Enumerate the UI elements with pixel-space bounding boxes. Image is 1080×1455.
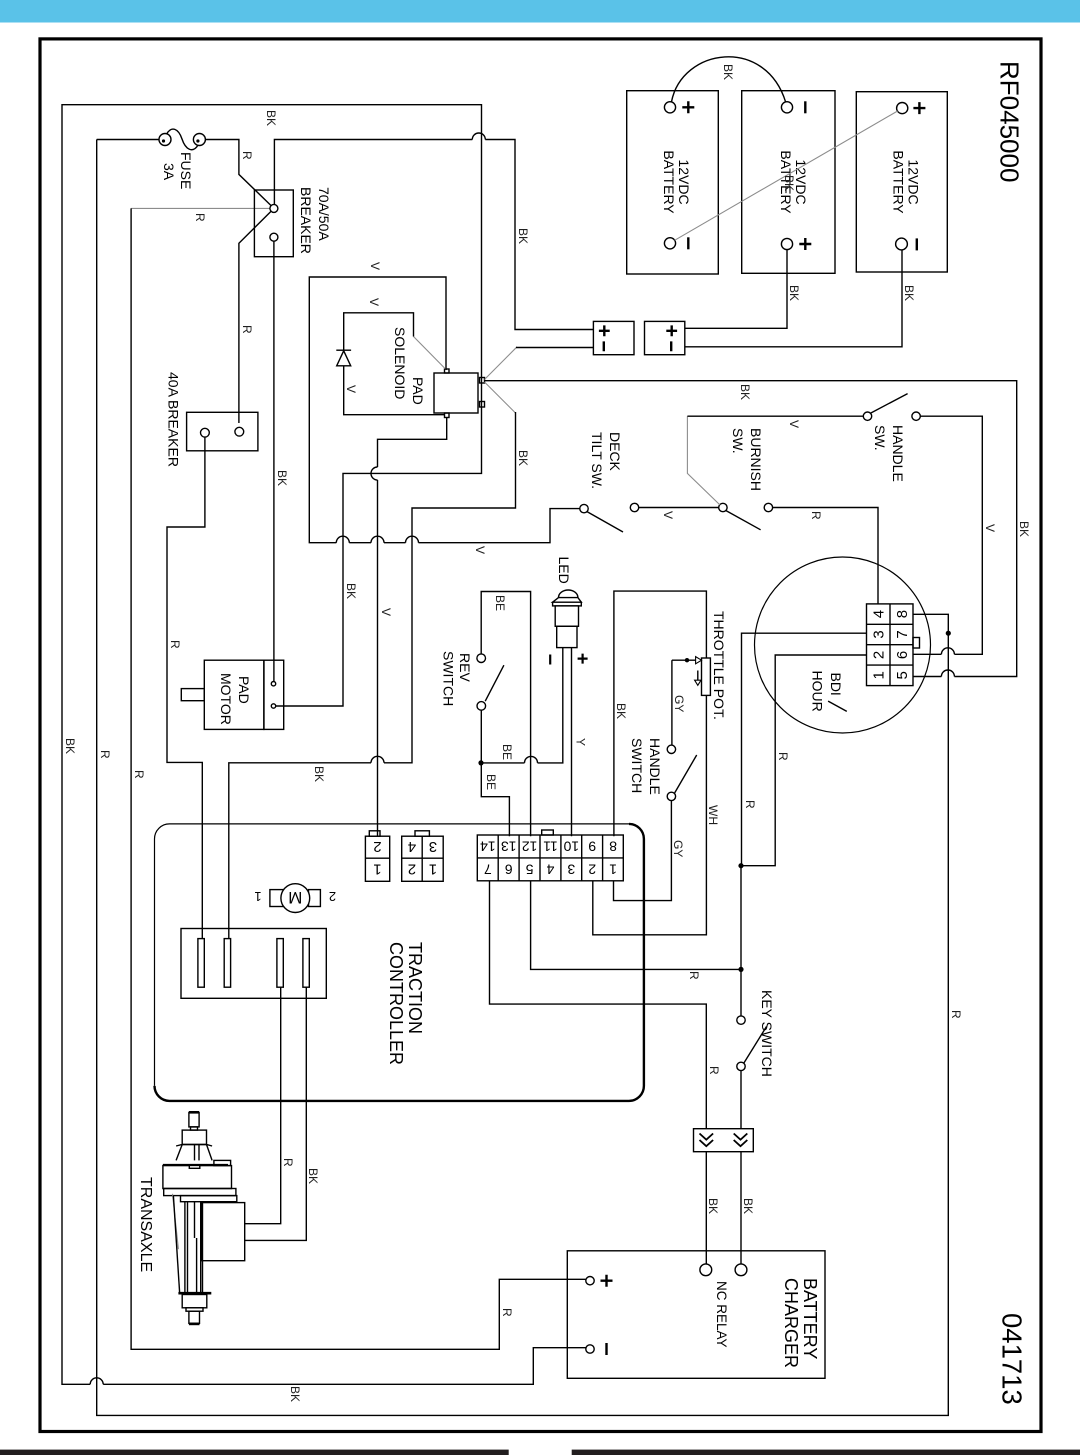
svg-text:R: R — [500, 1308, 514, 1317]
70A breaker blade and wire down to 40A breaker — [239, 211, 271, 423]
svg-text:10: 10 — [563, 839, 579, 855]
charger minus terminal — [586, 1345, 594, 1353]
handle switch (top) — [863, 394, 920, 421]
handle switch (lower) — [667, 745, 697, 801]
svg-text:40A BREAKER: 40A BREAKER — [165, 372, 181, 467]
wire hop over solenoid contact vertical — [472, 133, 485, 140]
svg-text:BE: BE — [500, 744, 514, 760]
svg-text:CHARGER: CHARGER — [781, 1278, 801, 1368]
battery2 plus terminal — [781, 238, 792, 249]
svg-text:R: R — [281, 1158, 295, 1167]
svg-text:SW.: SW. — [872, 425, 888, 451]
svg-text:R: R — [707, 1066, 721, 1075]
wire from diode anode to solenoid coil bottom tab — [344, 366, 445, 415]
motor M symbol — [270, 884, 321, 913]
wire Y LED plus leg to pin 11 — [571, 648, 573, 837]
gray diagonal from solenoid upper contact down to controller wire — [485, 382, 516, 413]
svg-text:BK: BK — [1017, 521, 1031, 537]
svg-text:3: 3 — [567, 861, 575, 877]
gray link wire from handle sw wire to burnish left terminal — [687, 416, 720, 505]
hop over x=377.5 — [371, 536, 384, 543]
hop over x=377.5 on y=762.8 — [371, 756, 384, 762]
svg-text:12VDC: 12VDC — [906, 159, 922, 204]
wire R fuse feed: from fuse left terminal down left edge, along bottom, up to BDI junction — [97, 140, 949, 1416]
deck tilt switch — [580, 503, 639, 532]
svg-text:1: 1 — [429, 860, 437, 877]
svg-text:R: R — [132, 770, 146, 779]
wire R transaxle to blade 3 — [245, 987, 281, 1223]
svg-text:R: R — [193, 213, 207, 222]
svg-text:BE: BE — [484, 774, 498, 790]
svg-text:BK: BK — [614, 703, 628, 719]
pad motor body — [181, 660, 283, 729]
battery 1 box — [627, 91, 719, 274]
battery2 minus terminal — [781, 102, 792, 113]
svg-text:RF045000: RF045000 — [995, 61, 1025, 182]
svg-text:BURNISH: BURNISH — [748, 428, 764, 491]
svg-text:BK: BK — [782, 175, 796, 191]
svg-text:TILT SW.: TILT SW. — [589, 432, 605, 489]
svg-text:REV: REV — [457, 653, 473, 682]
traction controller rounded box thick edges — [155, 824, 644, 1101]
svg-text:8: 8 — [609, 839, 617, 855]
gray leader diagonal from V-loop corner to solenoid coil top tab — [414, 337, 447, 370]
battery 2 box — [742, 91, 835, 274]
wire horizontal from frame-left into fuse — [97, 139, 159, 141]
svg-text:2: 2 — [329, 889, 336, 904]
svg-text:V: V — [344, 385, 358, 393]
battery3 plus terminal — [897, 103, 908, 114]
svg-text:V: V — [787, 420, 801, 428]
svg-text:V: V — [473, 546, 487, 554]
battery plug box2 — [645, 321, 685, 354]
svg-text:6: 6 — [894, 651, 911, 659]
junction dot at BDI pin8 wire — [946, 631, 951, 636]
wire V from solenoid coil bottom tab to 2-pin connector — [378, 418, 447, 468]
70A/50A breaker box — [254, 190, 293, 257]
svg-text:7: 7 — [484, 861, 492, 877]
svg-text:BK: BK — [312, 766, 326, 782]
wire R burnish to BDI pin 4 — [773, 508, 878, 604]
svg-text:GY: GY — [671, 840, 685, 857]
battery 3 box — [856, 92, 947, 272]
svg-text:BK: BK — [306, 1168, 320, 1184]
40A breaker box — [187, 412, 258, 451]
svg-text:HANDLE: HANDLE — [647, 738, 663, 795]
wire BE rev switch upper to pin 12 — [481, 592, 530, 837]
svg-text:BDI: BDI — [828, 673, 844, 696]
svg-text:SWITCH: SWITCH — [441, 651, 457, 706]
svg-text:3: 3 — [871, 630, 888, 638]
svg-text:12: 12 — [522, 839, 538, 855]
wire BK solenoid contact to traction controller blade 2 — [384, 412, 516, 763]
hop over x=948 on pin6 wire — [941, 648, 954, 655]
svg-text:BATTERY: BATTERY — [800, 1278, 820, 1359]
throttle pot body — [702, 658, 711, 695]
svg-text:BE: BE — [493, 595, 507, 611]
pot adjust arrow — [695, 671, 701, 686]
fuse 3A symbol — [159, 129, 205, 150]
throttle pot wire loop top — [614, 591, 707, 836]
hop on vertical over y=473.4 wire — [371, 467, 378, 480]
BDI / hour meter circle — [755, 557, 931, 733]
charger minus sign — [605, 1343, 607, 1355]
wire GY pot wiper to handle switch — [671, 660, 673, 745]
svg-text:1: 1 — [871, 671, 888, 679]
svg-text:BREAKER: BREAKER — [298, 187, 314, 254]
wire from diagonal to battery plug box1 — [516, 347, 593, 349]
svg-text:R: R — [949, 1010, 963, 1019]
battery1 minus sign — [687, 237, 689, 249]
70A breaker upper terminal — [270, 204, 278, 212]
svg-text:4: 4 — [408, 838, 416, 855]
70A breaker lower terminal — [270, 233, 278, 241]
svg-text:8: 8 — [894, 610, 911, 618]
svg-text:3A: 3A — [161, 163, 177, 181]
junction dot BE node — [478, 760, 483, 765]
BDI slash — [828, 701, 847, 711]
svg-text:V: V — [661, 511, 675, 519]
LED symbol — [553, 590, 582, 648]
svg-text:TRACTION: TRACTION — [405, 942, 425, 1034]
svg-text:BK: BK — [902, 285, 916, 301]
svg-text:M: M — [288, 888, 302, 907]
bottom footer bar left — [0, 1450, 509, 1455]
svg-text:BK: BK — [706, 1198, 720, 1214]
svg-text:BK: BK — [264, 110, 278, 126]
svg-text:THROTTLE POT.: THROTTLE POT. — [711, 611, 727, 720]
bottom footer bar right — [572, 1450, 1080, 1455]
rev switch — [477, 654, 504, 710]
gray diagonal from solenoid upper contact up to plug box wire — [485, 347, 518, 380]
controller power blade connector box — [181, 929, 326, 999]
svg-text:3: 3 — [429, 838, 437, 855]
svg-text:BATTERY: BATTERY — [891, 150, 907, 214]
battery2 minus sign — [804, 101, 806, 113]
svg-text:V: V — [983, 524, 997, 532]
40A breaker left terminal — [201, 428, 210, 437]
wire BE rev switch lower to pin 13 — [481, 710, 509, 836]
battery3 minus sign — [916, 238, 918, 250]
hop over x=412 — [406, 536, 419, 543]
svg-text:2: 2 — [408, 860, 416, 877]
svg-text:2: 2 — [588, 861, 596, 877]
svg-text:NC RELAY: NC RELAY — [714, 1281, 729, 1348]
svg-text:R: R — [776, 752, 790, 761]
svg-text:V: V — [379, 608, 393, 616]
svg-text:2: 2 — [871, 651, 888, 659]
svg-text:CONTROLLER: CONTROLLER — [386, 942, 406, 1065]
battery plug box1 — [593, 321, 634, 354]
wire V handle sw right to BDI pin 6 — [920, 416, 982, 654]
hop over x=343 — [336, 536, 349, 543]
wire WH pot bottom to pin 2 — [593, 695, 707, 934]
svg-text:PAD: PAD — [236, 676, 252, 704]
svg-text:SOLENOID: SOLENOID — [392, 327, 408, 399]
svg-text:DECK: DECK — [607, 432, 623, 472]
svg-text:9: 9 — [588, 839, 596, 855]
svg-text:MOTOR: MOTOR — [218, 673, 234, 725]
wire BK from solenoid upper contact to BDI pin 5 — [485, 381, 1017, 677]
wire BK transaxle to blade 4 — [245, 987, 307, 1240]
battery1 plus sign — [682, 101, 694, 113]
svg-text:13: 13 — [501, 839, 517, 855]
battery2 plus sign — [799, 238, 811, 250]
wire from pin 7 down to NC relay — [490, 881, 707, 1264]
NC relay terminal 2 — [735, 1264, 747, 1276]
svg-text:LED: LED — [556, 557, 572, 584]
svg-text:BK: BK — [721, 64, 735, 80]
wire continues to corner then down to box1 — [485, 140, 593, 330]
wire from 70A breaker upper terminal up and right to battery plug box1 — [274, 140, 472, 205]
svg-text:HANDLE: HANDLE — [890, 425, 906, 482]
svg-text:1: 1 — [373, 860, 381, 877]
cyan header bar — [0, 0, 1080, 23]
battery charger box — [567, 1251, 825, 1379]
key switch — [737, 1016, 767, 1071]
wire key switch lower to NC relay — [740, 1071, 742, 1264]
svg-text:041713: 041713 — [997, 1313, 1028, 1405]
burnish switch — [719, 503, 773, 530]
controller 2-pin connector — [365, 831, 389, 882]
wire V to handle switch left — [687, 415, 863, 417]
LED plus sign — [578, 654, 588, 664]
svg-text:FUSE: FUSE — [178, 152, 194, 189]
battery1 minus terminal — [664, 238, 675, 249]
svg-text:TRANSAXLE: TRANSAXLE — [137, 1177, 154, 1272]
wire from BDI pin 8 to junction — [913, 614, 948, 633]
wire BDI pin2 down to key switch node — [742, 655, 867, 866]
wire BK top-left loop: battery minus bus from solenoid contact down to charger minus — [103, 1348, 586, 1385]
svg-text:BATTERY: BATTERY — [661, 150, 677, 214]
gray jumper diagonal battery1 minus to battery3 plus — [675, 111, 898, 240]
wire GY handle switch lower to pin 1 — [614, 801, 672, 901]
charger plus sign — [601, 1275, 613, 1287]
battery3 plus sign — [913, 102, 925, 114]
svg-text:4: 4 — [871, 610, 888, 618]
wire hop on BK bottom wire over vertical R wire — [90, 1378, 103, 1384]
svg-text:R: R — [240, 151, 254, 160]
svg-text:SWITCH: SWITCH — [629, 738, 645, 793]
svg-text:SW.: SW. — [730, 428, 746, 454]
inline plug connector with chevrons — [694, 1129, 754, 1152]
wire down from node to key switch — [740, 866, 742, 1016]
gray wire R from left vertical to 70A breaker upper terminal — [131, 207, 270, 209]
LED minus sign — [549, 655, 551, 665]
junction dot on wiper wire — [685, 658, 689, 662]
diode loop wire from corner to diode top — [344, 313, 414, 350]
svg-text:1: 1 — [254, 889, 261, 904]
40A breaker right terminal — [235, 427, 244, 436]
svg-text:1: 1 — [609, 861, 617, 877]
svg-text:PAD: PAD — [410, 377, 426, 405]
svg-text:BK: BK — [516, 450, 530, 466]
battery1 plus terminal — [664, 102, 675, 113]
pad solenoid body — [434, 369, 485, 418]
junction dot key node lower — [738, 967, 743, 972]
svg-text:5: 5 — [894, 671, 911, 679]
svg-text:BK: BK — [738, 384, 752, 400]
svg-text:R: R — [240, 325, 254, 334]
svg-text:BK: BK — [288, 1386, 302, 1402]
svg-text:2: 2 — [373, 838, 381, 855]
wire BK continuing left and up the left edge to top wire into solenoid lower contact — [62, 105, 482, 1385]
svg-text:WH: WH — [706, 805, 720, 825]
svg-text:BK: BK — [741, 1198, 755, 1214]
wire from 40A left terminal to traction controller blade 1 — [167, 437, 205, 938]
svg-text:4: 4 — [546, 861, 554, 877]
svg-text:BK: BK — [63, 738, 77, 754]
svg-text:BK: BK — [275, 470, 289, 486]
svg-text:HOUR: HOUR — [809, 671, 825, 712]
BDI 8-pin connector — [867, 604, 920, 686]
NC relay terminal 1 — [700, 1264, 712, 1276]
hop over x=948 on pin5 wire — [941, 670, 954, 677]
svg-text:V: V — [367, 298, 381, 306]
wire from fuse right to 70A/50A breaker upper terminal (diagonal) — [205, 140, 271, 206]
wire LED minus leg to BE node — [538, 648, 563, 763]
transaxle assembly — [163, 1112, 245, 1324]
svg-text:6: 6 — [505, 861, 513, 877]
svg-text:R: R — [809, 511, 823, 520]
charger plus terminal — [586, 1277, 594, 1285]
wire from box2 to battery3 minus — [685, 250, 902, 347]
svg-text:5: 5 — [525, 861, 533, 877]
svg-text:14: 14 — [480, 839, 496, 855]
wire V deck tilt to burnish — [639, 507, 719, 509]
svg-text:BK: BK — [787, 285, 801, 301]
svg-text:R: R — [168, 640, 182, 649]
svg-text:12VDC: 12VDC — [676, 159, 692, 204]
svg-text:11: 11 — [543, 839, 558, 855]
hop over x=531 — [525, 756, 538, 762]
diode (cathode bar and triangle) — [336, 350, 351, 366]
controller 14-pin connector — [477, 830, 623, 881]
junction dot key node upper — [738, 863, 743, 868]
wire R left loop to battery charger plus — [131, 208, 586, 1349]
wire long R from pin 5 to key node — [531, 881, 741, 970]
controller 4-pin connector — [402, 831, 444, 882]
svg-text:BK: BK — [516, 228, 530, 244]
svg-text:R: R — [743, 800, 757, 809]
wire from 70A lower terminal down to pad motor — [273, 241, 275, 681]
jumper arc battery1 plus to battery2 minus — [672, 57, 786, 102]
svg-text:70A/50A: 70A/50A — [316, 187, 332, 241]
traction controller rounded box (thin part) — [155, 824, 630, 1086]
svg-text:Y: Y — [574, 738, 588, 746]
battery3 minus terminal — [896, 238, 908, 250]
svg-text:V: V — [368, 262, 382, 270]
wire V from solenoid coil top tab to deck tilt switch — [309, 277, 446, 543]
pad motor terminals — [271, 682, 275, 686]
svg-text:7: 7 — [894, 630, 911, 638]
pot wiper arrow — [672, 657, 702, 664]
svg-text:KEY SWITCH: KEY SWITCH — [759, 990, 775, 1077]
wire BDI pin3 down to key switch node — [742, 633, 867, 866]
svg-text:GY: GY — [672, 695, 686, 712]
wire from box2 to battery2 plus — [685, 250, 787, 329]
svg-text:BK: BK — [344, 583, 358, 599]
svg-text:R: R — [98, 750, 112, 759]
svg-text:R: R — [687, 971, 701, 980]
